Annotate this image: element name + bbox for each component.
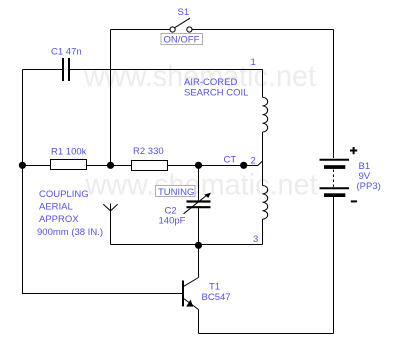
antenna coupling aerial [103,204,117,245]
svg-text:AIR-CORED: AIR-CORED [184,77,237,88]
resistor R2 [132,161,168,171]
svg-text:R2 330: R2 330 [133,146,164,157]
junction node dots [19,162,247,249]
wire middle rail seg1 [23,165,51,167]
svg-text:S1: S1 [178,7,190,18]
svg-text:TUNING: TUNING [158,187,194,198]
svg-text:900mm (38 IN.): 900mm (38 IN.) [37,227,103,238]
resistor R1 [51,160,87,170]
svg-text:www.shematic.net: www.shematic.net [85,169,319,202]
wire top rail right of C1 [70,69,263,71]
svg-text:R1 100k: R1 100k [51,147,87,158]
wire lower mid rail [111,244,263,246]
label TUNING [156,186,196,198]
svg-text:CT: CT [224,155,237,166]
svg-text:(PP3): (PP3) [357,181,381,192]
wire base rail [22,293,182,295]
wire switch feed vertical [110,30,112,166]
battery B1 [320,147,358,201]
wire battery top vertical [333,30,335,159]
capacitor C1 [62,58,70,81]
switch S1 [111,29,170,31]
transistor T1 [182,246,199,334]
svg-text:COUPLING: COUPLING [39,189,89,200]
wire middle rail seg3 [167,161,263,166]
svg-text:C1 47n: C1 47n [51,47,82,58]
label ON/OFF [161,34,203,46]
capacitor C2 variable [184,166,212,246]
svg-text:SEARCH COIL: SEARCH COIL [184,88,248,99]
svg-text:140pF: 140pF [159,216,186,227]
wire left vertical [22,70,24,294]
coil L1 air-cored search coil [263,70,268,245]
svg-text:BC547: BC547 [202,292,231,303]
wire battery bottom vertical [333,197,335,334]
svg-text:3: 3 [253,234,258,245]
svg-text:2: 2 [251,156,256,167]
svg-text:APPROX: APPROX [39,214,79,225]
wire top rail left of C1 [23,69,63,71]
svg-text:1: 1 [251,57,256,68]
wire middle rail seg2 [87,165,132,167]
svg-text:ON/OFF: ON/OFF [164,35,200,46]
svg-text:AERIAL: AERIAL [39,202,73,213]
svg-text:T1: T1 [209,282,220,293]
wire bottom rail [199,333,334,335]
